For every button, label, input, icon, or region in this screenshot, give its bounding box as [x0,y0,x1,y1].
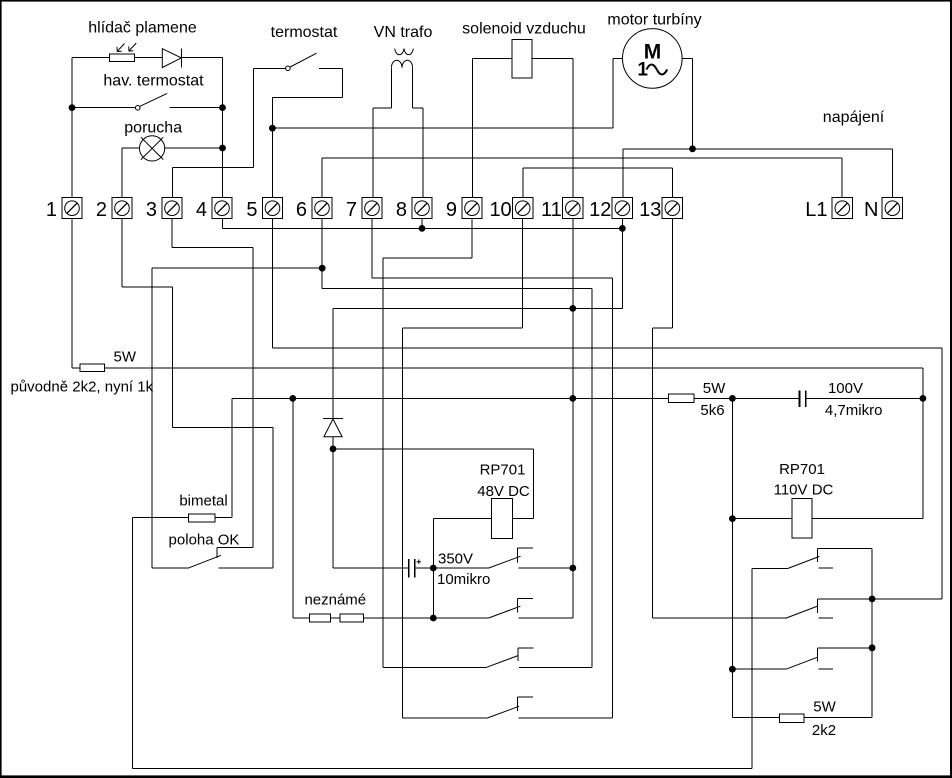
resistor 5k6 [669,394,694,403]
svg-text:48V DC: 48V DC [477,483,530,500]
svg-text:5W: 5W [813,699,836,716]
wire T12 net y308 [621,219,623,309]
terminal 4 [212,198,232,219]
wire T3 net to poloha OK contact [171,219,173,248]
svg-text:RP701: RP701 [779,461,825,478]
node junction diode/relay feed [330,446,337,453]
switch hav. termostat [72,107,135,109]
resistor 5W (puvodne 2k2) [80,364,105,372]
svg-text:13: 13 [639,199,661,221]
svg-text:VN trafo: VN trafo [374,24,433,41]
wire net y268 to poloha OK switch [152,267,322,269]
node junction T8 [419,225,426,232]
svg-text:10: 10 [489,199,511,221]
terminal 12 [612,198,632,219]
wire diode D2 down [332,437,334,568]
svg-text:1: 1 [637,60,648,81]
svg-text:7: 7 [346,199,357,221]
wire T6 net down to contact row 3 [321,219,323,289]
node junction contact1/T11 [569,565,576,572]
svg-text:solenoid vzduchu: solenoid vzduchu [462,21,586,38]
wire lamp left lead to terminal 2 [122,147,139,149]
node junction y368/y398 risers [920,395,927,402]
wire bimetal right [215,517,232,519]
wire T9 net down [471,219,473,259]
switch poloha OK [152,567,189,569]
wire bimetal left [133,517,189,519]
wire T8 stub [421,219,423,229]
terminal L1 [832,198,852,219]
node junction 110V coil branch [729,395,736,402]
node junction T1 top [69,104,76,111]
wire neznamou resistors branch [292,398,294,618]
node junction T11/y398 [569,395,576,402]
wire T5 net y348 to far right [272,219,274,348]
capacitor 100V 4,7mikro [799,390,801,407]
wire 2k2 to contact column [804,717,872,719]
relay coil RP701 110V [792,499,812,538]
wire termostat right to terminal 5 [341,68,343,97]
terminal 13 [662,198,682,219]
svg-text:N: N [864,199,878,221]
wire cap to contact 1 pivot [415,567,489,569]
relay contact 48V no.2 [489,606,521,618]
svg-text:10mikro: 10mikro [437,571,490,588]
node junction contact col y599 [869,596,876,603]
wire riser to 2k2 [732,717,779,719]
svg-text:5k6: 5k6 [700,402,724,419]
wire 5k6 to 100V capacitor [694,397,799,399]
wire T2 net jog [121,219,123,287]
wire lamp right lead [165,147,223,149]
wire top loop left [72,57,109,59]
motor M1 [623,29,683,89]
terminal 3 [162,198,182,219]
wire 5k6 riser down [731,398,733,717]
resistor 2k2 [779,714,804,723]
wire T7 net down to contact row 4 [371,219,373,278]
wire net y158 T6 to L1 [322,157,842,159]
node junction coil/nezname [430,615,437,622]
svg-text:11: 11 [541,199,562,221]
node junction lamp right [219,145,226,152]
svg-text:1: 1 [46,199,57,221]
wire 48V coil left lead [433,518,491,520]
diode D1 [162,49,181,68]
terminal 7 [362,198,382,219]
wire T11 net down [572,219,574,618]
svg-text:100V: 100V [828,380,863,397]
resistor nezname 2 [340,614,364,622]
wire motor right lead [682,58,692,60]
terminal 9 [462,198,482,219]
wire left vertical to terminal 1 [71,58,73,198]
svg-text:hav. termostat: hav. termostat [103,73,204,90]
wire y449 to 48V coil [333,448,533,450]
svg-text:původně 2k2, nyní 1k: původně 2k2, nyní 1k [11,379,154,396]
wire T4 net y228 [222,219,224,229]
photoresistor hlidac plamene [109,54,134,62]
wire right vertical to terminal 4 [222,58,224,198]
wire motor left lead [613,58,623,60]
svg-text:350V: 350V [438,550,473,567]
wire trafo right leg to terminal 8 [412,68,414,108]
terminal N [882,198,902,219]
wire cap feed from diode branch [333,567,408,569]
svg-text:12: 12 [589,199,611,221]
wire net y368 resistor to far right [105,367,923,369]
svg-text:9: 9 [446,199,457,221]
svg-text:8: 8 [396,199,407,221]
wire T13 net down to 110V contact 2 [671,219,673,329]
terminal 6 [312,198,332,219]
solenoid coil [512,39,532,78]
svg-text:motor turbíny: motor turbíny [607,12,701,29]
svg-text:2k2: 2k2 [812,722,836,739]
svg-text:4,7mikro: 4,7mikro [825,402,883,419]
light arrows [117,43,136,51]
terminal 2 [112,198,132,219]
node junction contact col y648 [869,644,876,651]
wire bimetal net riser y398 [231,398,233,517]
svg-text:2: 2 [96,199,107,221]
transformer VN trafo windings [395,49,414,55]
terminal 1 [62,198,82,219]
diode D2 [323,417,343,419]
node junction T12 [619,225,626,232]
wire 110V coil left lead [732,518,791,520]
node junction neznamou branch [289,395,296,402]
svg-text:6: 6 [296,199,307,221]
wire trafo left leg to terminal 7 [390,68,392,108]
relay contact 110V no.2 [653,617,786,619]
wire T10 net down [522,219,524,329]
node junction T5/motor line [269,125,276,132]
node junction T4 top [219,104,226,111]
wire capacitor to right riser [806,397,923,399]
wire net y168 T10 to T13 [523,167,673,169]
svg-text:5W: 5W [114,349,137,366]
node junction riser/contact3 [729,666,736,673]
svg-text:4: 4 [196,199,207,221]
svg-text:napájení: napájení [823,109,885,126]
wire solenoid left to terminal 9 [472,58,512,60]
terminal 11 [563,198,583,219]
wire T1 down to 5W resistor [71,219,73,368]
capacitor 350V 10mikro [408,559,410,578]
wire solenoid right to terminal 11 [532,58,573,60]
resistor nezname 1 [310,614,331,622]
node junction motor/N line [689,145,696,152]
svg-text:RP701: RP701 [480,462,526,479]
terminal 5 [262,198,282,219]
relay coil RP701 48V [491,499,512,539]
wire net y148 T12 to N [623,148,893,150]
lamp porucha [140,136,165,161]
relay contact 110V no.3 [732,668,786,670]
wire 110V coil right lead [812,518,923,520]
svg-text:3: 3 [146,199,157,221]
node junction T6 [319,265,326,272]
relay contact 48V no.1 [489,556,521,568]
terminal 10 [513,198,533,219]
node junction coil/5k6 riser [729,515,736,522]
svg-text:5W: 5W [703,380,726,397]
svg-text:neznámé: neznámé [304,591,366,608]
node junction coil/cap [430,565,437,572]
svg-text:110V DC: 110V DC [774,482,834,499]
wire net y128 termostat to motor [272,127,613,129]
relay contact 48V no.4 [403,717,488,719]
relay contact 48V no.3 [383,666,487,668]
svg-text:bimetal: bimetal [179,493,227,510]
wire diode to right [182,57,223,59]
svg-text:hlídač plamene: hlídač plamene [88,20,197,37]
terminal 8 [412,198,432,219]
svg-text:5: 5 [246,199,257,221]
relay contact 110V no.1 [752,567,788,569]
svg-text:porucha: porucha [124,119,182,136]
svg-text:termostat: termostat [271,24,338,41]
wire photoresistor to diode [135,57,163,59]
wire bottom return loop [132,518,134,769]
resistor bimetal [189,514,216,522]
svg-text:poloha OK: poloha OK [169,531,240,548]
node junction T11/y308 [569,305,576,312]
wire termostat left to terminal 3 [252,68,254,167]
svg-text:L1: L1 [805,199,827,221]
switch termostat [253,67,285,69]
